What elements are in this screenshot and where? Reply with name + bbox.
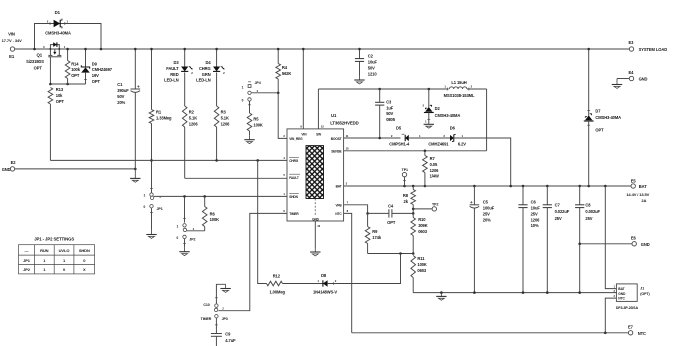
wire between D5 and D6 bbox=[409, 137, 450, 139]
diode D1 CMSH3-40MA bbox=[59, 20, 61, 27]
wire R9 bottom net bbox=[368, 253, 414, 255]
svg-text:25V: 25V bbox=[585, 216, 592, 221]
svg-text:100k: 100k bbox=[71, 67, 81, 72]
svg-text:JP1: JP1 bbox=[157, 207, 163, 211]
resistor R1 1.33Meg bbox=[151, 49, 153, 110]
svg-text:VIN_REG: VIN_REG bbox=[289, 137, 303, 141]
svg-text:E2: E2 bbox=[11, 160, 17, 165]
svg-text:UVLO: UVLO bbox=[59, 248, 70, 253]
resistor R3 5.1K bbox=[214, 106, 219, 127]
resistor R13 10k bbox=[48, 88, 53, 105]
svg-text:OPT: OPT bbox=[387, 220, 396, 225]
svg-text:1.00Meg: 1.00Meg bbox=[269, 289, 285, 294]
svg-text:CMSH3-40MA: CMSH3-40MA bbox=[435, 113, 461, 118]
svg-text:JP1: JP1 bbox=[23, 258, 31, 263]
svg-text:D5: D5 bbox=[396, 125, 402, 130]
resistor R8 2k bbox=[412, 186, 414, 190]
terminal E3 SYSTEM LOAD bbox=[629, 47, 633, 51]
svg-text:RUN: RUN bbox=[40, 248, 49, 253]
svg-text:LED-LN: LED-LN bbox=[196, 78, 211, 83]
svg-text:JP3: JP3 bbox=[222, 317, 228, 321]
wire BAT rail bbox=[344, 185, 631, 187]
svg-text:C2: C2 bbox=[368, 54, 374, 59]
ground at E2 rail end bbox=[134, 169, 136, 179]
svg-text:TIMER: TIMER bbox=[201, 317, 212, 321]
svg-text:1N4148WS-V: 1N4148WS-V bbox=[313, 289, 337, 294]
svg-text:U1: U1 bbox=[331, 113, 337, 118]
svg-text:E3: E3 bbox=[629, 40, 635, 45]
svg-text:50V: 50V bbox=[386, 111, 393, 116]
svg-text:R11: R11 bbox=[417, 256, 425, 261]
svg-text:0603: 0603 bbox=[418, 229, 428, 234]
svg-text:D2: D2 bbox=[435, 106, 441, 111]
svg-text:D4: D4 bbox=[206, 60, 212, 65]
svg-text:CMSH3-40MA: CMSH3-40MA bbox=[595, 115, 621, 120]
svg-text:JP4: JP4 bbox=[255, 81, 261, 85]
svg-text:1206: 1206 bbox=[430, 168, 440, 173]
terminal E6 GND bbox=[580, 243, 632, 245]
svg-text:C9: C9 bbox=[225, 331, 231, 336]
svg-text:1206: 1206 bbox=[189, 121, 199, 126]
svg-text:BAT: BAT bbox=[336, 185, 342, 189]
svg-text:100K: 100K bbox=[253, 123, 263, 128]
svg-text:25V: 25V bbox=[555, 216, 562, 221]
wire BOOST net bbox=[344, 137, 401, 139]
svg-text:50V: 50V bbox=[368, 66, 375, 71]
svg-text:R6: R6 bbox=[210, 211, 216, 216]
wire E4 to ground bbox=[617, 78, 629, 80]
svg-text:BAT: BAT bbox=[618, 287, 624, 291]
svg-text:TP1: TP1 bbox=[402, 168, 408, 172]
svg-text:309K: 309K bbox=[418, 223, 428, 228]
ground at JP1 bbox=[151, 230, 153, 235]
svg-text:NTC: NTC bbox=[638, 331, 646, 336]
U1 crosshatch pad bbox=[306, 146, 324, 199]
terminal E7 NTC bbox=[628, 331, 632, 335]
wire D1 bypass loop bbox=[35, 24, 102, 50]
svg-text:2A: 2A bbox=[641, 198, 646, 203]
wire NTC net from U1 bbox=[344, 213, 352, 332]
svg-text:R7: R7 bbox=[430, 156, 436, 161]
svg-text:0.05: 0.05 bbox=[430, 162, 438, 167]
svg-text:R13: R13 bbox=[56, 87, 64, 92]
ground at D2 bbox=[428, 123, 430, 126]
wire CHRG net bbox=[50, 159, 287, 161]
wire SW to sense corner bbox=[486, 89, 488, 151]
svg-text:25V: 25V bbox=[483, 211, 490, 216]
svg-text:D6: D6 bbox=[450, 125, 456, 130]
wire SHDN net bbox=[154, 195, 287, 197]
svg-text:25V: 25V bbox=[531, 211, 538, 216]
svg-text:R10: R10 bbox=[418, 217, 426, 222]
jumper JP3 bbox=[215, 297, 218, 299]
svg-text:D1: D1 bbox=[55, 10, 61, 15]
svg-text:10%: 10% bbox=[531, 223, 539, 228]
svg-text:OPT: OPT bbox=[71, 73, 80, 78]
svg-text:R5: R5 bbox=[253, 117, 259, 122]
svg-text:1206: 1206 bbox=[531, 217, 541, 222]
svg-text:VIN: VIN bbox=[301, 132, 307, 136]
wire CHRG to R12 bbox=[258, 160, 267, 283]
ground at E4 bbox=[616, 79, 618, 85]
svg-text:5.1K: 5.1K bbox=[221, 115, 229, 120]
diode D7 CMSH3-40MA OPT bbox=[588, 49, 590, 116]
svg-text:E5: E5 bbox=[631, 178, 637, 183]
test point TP1 bbox=[402, 172, 406, 176]
transistor Q1 Si2319DS bbox=[50, 45, 59, 49]
jumper JP1 bbox=[150, 187, 153, 189]
svg-text:FAULT: FAULT bbox=[289, 176, 299, 180]
svg-text:JP2: JP2 bbox=[189, 238, 195, 242]
wire output ground rail bbox=[413, 292, 616, 294]
ground at output rail bbox=[440, 293, 442, 297]
capacitor C3 1uF bbox=[379, 89, 381, 102]
wire JP2 branch bbox=[184, 196, 186, 222]
svg-text:E7: E7 bbox=[628, 325, 634, 330]
svg-text:SHDN: SHDN bbox=[79, 248, 90, 253]
svg-text:GRN: GRN bbox=[202, 72, 211, 77]
capacitor C6 10uF bbox=[522, 186, 524, 205]
svg-text:CMSH3-40MA: CMSH3-40MA bbox=[45, 31, 71, 36]
capacitor C9 4.7uF bbox=[215, 318, 217, 334]
resistor R6 100K bbox=[204, 196, 206, 206]
capacitor C1 390uF bbox=[134, 49, 136, 89]
svg-text:14.4V / 13.5V: 14.4V / 13.5V bbox=[626, 192, 649, 197]
svg-text:JP2: JP2 bbox=[23, 267, 31, 272]
svg-text:VFB: VFB bbox=[336, 204, 343, 208]
svg-text:E6: E6 bbox=[631, 236, 637, 241]
svg-text:4.7uF: 4.7uF bbox=[225, 338, 236, 343]
svg-text:17.7V - 34V: 17.7V - 34V bbox=[2, 38, 22, 43]
svg-text:1/4W: 1/4W bbox=[430, 174, 439, 179]
svg-text:OPT: OPT bbox=[56, 99, 65, 104]
resistor R14 100k bbox=[67, 49, 69, 61]
wire D8 to feedback node bbox=[328, 254, 401, 284]
svg-text:GND: GND bbox=[618, 292, 626, 296]
svg-text:SYSTEM LOAD: SYSTEM LOAD bbox=[639, 47, 668, 52]
resistor R12 1.00Meg bbox=[267, 281, 283, 286]
svg-text:174k: 174k bbox=[372, 235, 382, 240]
svg-text:VIN: VIN bbox=[8, 32, 15, 37]
svg-text:C5: C5 bbox=[483, 200, 489, 205]
wire JP2 to ground bbox=[184, 239, 186, 248]
svg-text:J1: J1 bbox=[640, 286, 644, 290]
ground at R5 bbox=[249, 135, 251, 140]
diode D2 CMSH3-40MA bbox=[428, 89, 430, 107]
svg-text:19V: 19V bbox=[92, 73, 99, 78]
svg-text:1uF: 1uF bbox=[386, 105, 394, 110]
svg-text:C8: C8 bbox=[585, 202, 591, 207]
svg-text:0.022uF: 0.022uF bbox=[555, 209, 570, 214]
svg-text:Si2319DS: Si2319DS bbox=[26, 59, 44, 64]
svg-text:D3: D3 bbox=[174, 60, 180, 65]
resistor R5 100K bbox=[249, 101, 251, 113]
resistor R4 562K bbox=[277, 49, 279, 64]
wire gate node line bbox=[50, 83, 85, 85]
svg-text:SHDN: SHDN bbox=[289, 195, 298, 199]
wire R12 to D8 bbox=[283, 283, 323, 285]
svg-text:CMPSH1-4: CMPSH1-4 bbox=[389, 142, 410, 147]
wire VFB net from U1 bbox=[344, 205, 368, 214]
zener D6 CMHZ4691 6.2V bbox=[450, 135, 454, 141]
svg-text:D7: D7 bbox=[595, 108, 601, 113]
ground at U1 GND bbox=[314, 248, 316, 253]
svg-text:(OPT): (OPT) bbox=[640, 292, 650, 296]
terminal E1 VIN bbox=[10, 47, 14, 51]
resistor R11 100K bbox=[411, 256, 416, 278]
svg-text:10uF: 10uF bbox=[368, 60, 378, 65]
svg-text:FAULT: FAULT bbox=[166, 66, 179, 71]
svg-text:562K: 562K bbox=[282, 71, 292, 76]
svg-text:100uF: 100uF bbox=[483, 206, 495, 211]
svg-text:E4: E4 bbox=[629, 70, 635, 75]
svg-text:SW: SW bbox=[316, 132, 321, 136]
svg-text:1.33Meg: 1.33Meg bbox=[156, 116, 172, 121]
wire NTC rail bbox=[352, 332, 629, 334]
terminal E2 GND bbox=[10, 167, 14, 171]
svg-text:C7: C7 bbox=[555, 202, 561, 207]
svg-text:390uF: 390uF bbox=[117, 88, 129, 93]
op-amp U1 LT3652HVEDD box bbox=[287, 129, 344, 221]
svg-text:GND: GND bbox=[2, 167, 11, 172]
wire JP3 pin1 to ground bbox=[216, 284, 225, 304]
svg-text:100K: 100K bbox=[417, 262, 427, 267]
wire SENSE net bbox=[344, 150, 487, 152]
svg-text:CMHZ4697: CMHZ4697 bbox=[92, 67, 113, 72]
svg-text:BOOST: BOOST bbox=[331, 137, 342, 141]
svg-text:5.1K: 5.1K bbox=[189, 115, 197, 120]
svg-text:100K: 100K bbox=[210, 217, 220, 222]
svg-text:LT3652HVEDD: LT3652HVEDD bbox=[330, 120, 358, 125]
capacitor C8 0.002uF bbox=[579, 186, 581, 205]
svg-text:0603: 0603 bbox=[417, 268, 427, 273]
wire J1 pin3 to NTC rail bbox=[605, 298, 616, 333]
terminal E5 BAT bbox=[631, 184, 635, 188]
svg-text:GND: GND bbox=[641, 242, 650, 247]
wire JP4 to VIN_REG bbox=[252, 92, 279, 94]
svg-text:R14: R14 bbox=[71, 61, 79, 66]
svg-text:L1 15uH: L1 15uH bbox=[451, 80, 466, 85]
svg-text:R4: R4 bbox=[282, 65, 288, 70]
svg-text:C10: C10 bbox=[203, 303, 209, 307]
svg-text:CHRG: CHRG bbox=[199, 66, 211, 71]
svg-text:SENSE: SENSE bbox=[331, 150, 341, 154]
svg-text:R1: R1 bbox=[156, 110, 162, 115]
svg-text:NTC: NTC bbox=[618, 297, 625, 301]
svg-text:OPT: OPT bbox=[92, 79, 101, 84]
svg-text:20%: 20% bbox=[483, 217, 491, 222]
wire ground rail to J1 pin2 bbox=[615, 292, 617, 295]
svg-text:1210: 1210 bbox=[368, 71, 378, 76]
inductor L1 15uH bbox=[449, 87, 467, 89]
svg-text:DF3-3P-2DSA: DF3-3P-2DSA bbox=[616, 306, 639, 310]
capacitor C2 10uF bbox=[359, 49, 361, 59]
svg-text:Q1: Q1 bbox=[37, 52, 43, 57]
resistor R2 5.1K bbox=[182, 106, 187, 127]
svg-text:CMHZ4691: CMHZ4691 bbox=[428, 142, 449, 147]
svg-text:BAT: BAT bbox=[639, 184, 647, 189]
resistor R9 174k bbox=[367, 213, 369, 226]
svg-text:RED: RED bbox=[170, 72, 178, 77]
svg-text:JP1 - JP2 SETTINGS: JP1 - JP2 SETTINGS bbox=[34, 236, 74, 241]
svg-text:R2: R2 bbox=[189, 110, 195, 115]
svg-text:50V: 50V bbox=[117, 94, 124, 99]
svg-text:D9: D9 bbox=[92, 61, 98, 66]
terminal E4 GND bbox=[629, 76, 633, 80]
svg-text:R9: R9 bbox=[372, 229, 378, 234]
resistor R10 309K bbox=[412, 213, 414, 217]
svg-text:GND: GND bbox=[312, 217, 320, 221]
svg-text:E1: E1 bbox=[9, 54, 15, 59]
wire VIN rail bbox=[15, 48, 630, 50]
svg-text:10k: 10k bbox=[56, 93, 63, 98]
wire VIN_REG net bbox=[278, 93, 287, 139]
wire JP1 to ground bbox=[151, 208, 153, 230]
svg-text:R3: R3 bbox=[221, 110, 227, 115]
svg-text:D8: D8 bbox=[321, 273, 327, 278]
svg-text:C3: C3 bbox=[386, 99, 392, 104]
wire BOOST to BAT rail bbox=[454, 138, 511, 186]
svg-text:MSS1038-153ML: MSS1038-153ML bbox=[444, 93, 475, 98]
diode D5 CMPSH1-4 bbox=[404, 135, 406, 141]
svg-text:—: — bbox=[25, 248, 29, 253]
wire E2 ground rail bbox=[15, 168, 136, 170]
U1 pad dashed stub bbox=[314, 199, 316, 216]
svg-text:C1: C1 bbox=[117, 82, 123, 87]
resistor R7 0.05 bbox=[424, 151, 426, 156]
connector J1 DF3-3P-2DSA bbox=[616, 284, 637, 302]
svg-text:1206: 1206 bbox=[221, 121, 231, 126]
capacitor C5 100uF bbox=[473, 186, 475, 205]
wire BAT to J1 pin1 bbox=[605, 186, 616, 289]
svg-text:10uF: 10uF bbox=[531, 206, 541, 211]
svg-text:20%: 20% bbox=[117, 100, 125, 105]
ground at JP2 bbox=[184, 247, 186, 252]
ground at C2 bbox=[359, 76, 361, 81]
svg-text:C6: C6 bbox=[531, 200, 537, 205]
test point TP2 bbox=[432, 207, 436, 211]
svg-text:OPT: OPT bbox=[34, 66, 43, 71]
svg-text:LED-LN: LED-LN bbox=[164, 78, 179, 83]
wire U1 GND pin bbox=[314, 221, 316, 248]
svg-text:TIMER: TIMER bbox=[289, 212, 299, 216]
wire SW net bbox=[317, 89, 319, 129]
svg-text:R12: R12 bbox=[273, 274, 281, 279]
capacitor C4 OPT bbox=[368, 212, 389, 214]
ground at C10 position bbox=[225, 284, 227, 288]
svg-text:6.2V: 6.2V bbox=[458, 142, 466, 147]
wire FAULT net bbox=[185, 177, 287, 179]
svg-text:NTC: NTC bbox=[335, 212, 342, 216]
LED D4 CHRG GRN bbox=[216, 49, 218, 67]
wire U1 VIN pin to rail bbox=[302, 49, 304, 129]
svg-text:C4: C4 bbox=[388, 203, 394, 208]
jumper JP4 bbox=[248, 81, 251, 83]
wire U1 TIMER net bbox=[218, 213, 287, 310]
svg-text:R8: R8 bbox=[403, 193, 409, 198]
svg-text:0805: 0805 bbox=[386, 117, 396, 122]
svg-text:CHRG: CHRG bbox=[289, 159, 299, 163]
diode D8 1N4148WS-V bbox=[322, 280, 324, 286]
svg-text:TP2: TP2 bbox=[432, 202, 438, 206]
svg-text:OPT: OPT bbox=[595, 128, 604, 133]
svg-text:0.002uF: 0.002uF bbox=[585, 209, 600, 214]
wire Q1 gate to gate node bbox=[49, 57, 51, 84]
jumper JP2 bbox=[183, 224, 186, 227]
LED D3 FAULT RED bbox=[184, 49, 186, 67]
svg-text:X: X bbox=[83, 267, 86, 272]
zener D9 CMHZ4697 bbox=[85, 49, 87, 67]
capacitor C7 0.022uF bbox=[546, 186, 548, 205]
svg-text:GND: GND bbox=[639, 77, 648, 82]
